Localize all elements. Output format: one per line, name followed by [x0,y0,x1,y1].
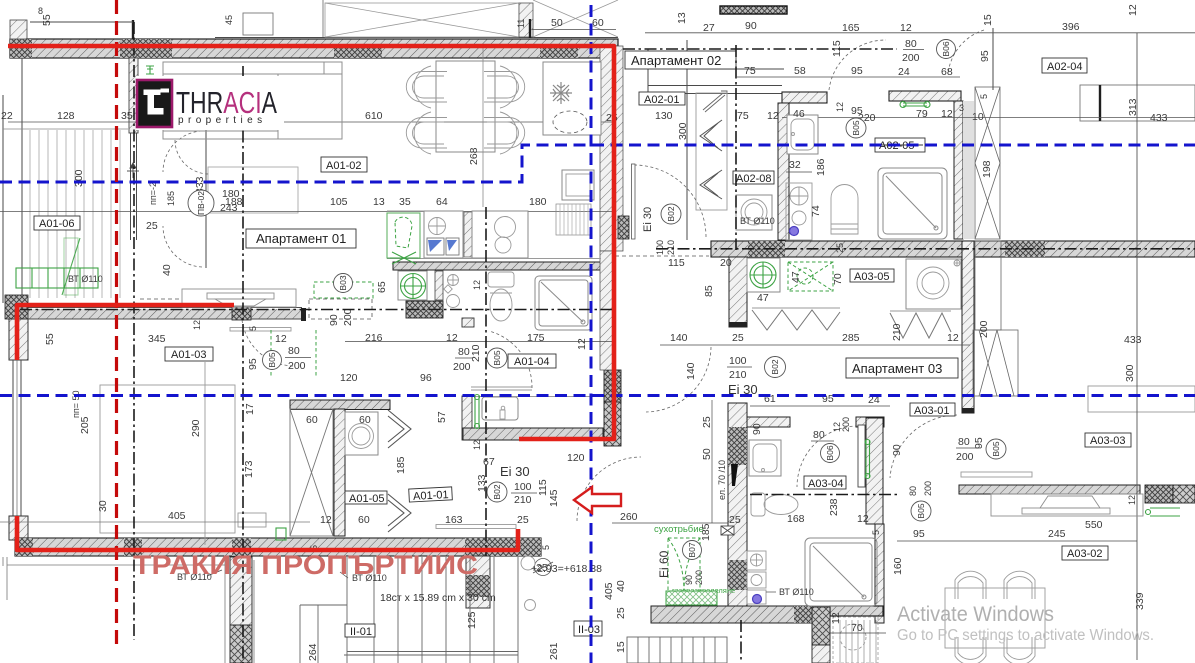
svg-text:13: 13 [676,12,688,24]
bath step wall piece [462,318,474,327]
svg-text:75: 75 [737,110,749,122]
svg-text:67: 67 [483,456,495,468]
shower A01 bath [535,276,592,330]
green stick icon near logo [146,66,154,74]
svg-text:B07: B07 [687,542,697,557]
svg-text:200: 200 [978,320,990,338]
svg-text:12: 12 [446,332,458,344]
svg-text:200: 200 [288,360,306,372]
svg-text:12: 12 [1127,495,1137,505]
logo glyph [144,89,170,115]
svg-text:105: 105 [330,196,348,208]
bedroom wall crosshatch block [1145,485,1173,503]
wall stub x133 [132,20,134,39]
radiator dim line [830,632,886,634]
washing machine A02-08 [736,195,772,230]
wall band A01 living/bedroom divider [8,307,302,309]
curtain dashed line [140,298,182,300]
center wall column crosshatch part2 [728,560,747,590]
green tall cabinet kitchen A01 [387,213,420,258]
svg-text:200: 200 [902,52,920,64]
green plant marks ap03 bedroom [1146,508,1181,516]
window shaft lower with X [973,241,1018,396]
kitchen appliance column A03 [747,551,766,604]
window shaft with X bracing upper [975,87,1000,239]
svg-text:35: 35 [399,196,411,208]
svg-text:12: 12 [830,612,842,624]
svg-text:120: 120 [340,372,358,384]
label II-03 [574,621,602,636]
svg-text:115: 115 [668,257,685,269]
kitchen A01-04 sink [482,397,518,420]
dim chain line bedroom [0,521,310,523]
axis horizontal y249 divider band [656,248,1195,250]
kitchen door arc [489,331,532,388]
green dashed appliance A03-05 [788,262,833,291]
svg-text:68: 68 [941,66,953,78]
vanity sink A02-08 [787,115,818,154]
svg-text:ВТ Ø110: ВТ Ø110 [68,274,103,284]
label A02-05 strikethrough [875,138,925,152]
svg-text:B05: B05 [991,441,1001,456]
label A01-03 [165,347,213,361]
divider band crosshatch left [748,241,785,257]
svg-text:27: 27 [703,22,715,34]
svg-text:95: 95 [913,528,925,540]
svg-text:40: 40 [161,264,173,276]
shelf ap03 bedroom [961,472,1032,477]
left wall pier lower [9,516,28,540]
right long boundary line [1136,33,1138,660]
kitchen divider band A01 [393,262,601,270]
svg-text:сухотрьбие: сухотрьбие [654,524,704,535]
svg-text:90: 90 [328,314,340,326]
svg-text:80: 80 [958,436,970,448]
svg-text:A01-04: A01-04 [514,356,549,368]
svg-text:25: 25 [146,220,158,232]
bottom band offset right [830,606,883,616]
svg-text:B03: B03 [338,275,348,290]
towel radiator zigzag 1 [752,310,840,330]
svg-text:80: 80 [905,38,917,50]
svg-text:245: 245 [1048,528,1066,540]
svg-text:11: 11 [516,19,526,28]
svg-text:46: 46 [793,108,805,120]
fridge cabinet [543,62,601,135]
duct box X [721,526,734,535]
ap02 corridor top wall [648,85,782,87]
B02 circle ap02 [661,204,681,224]
svg-text:185: 185 [700,523,712,541]
red boundary bottom [17,516,518,550]
bedroom door arc [242,320,295,366]
cooktop block [472,211,528,258]
axis horizontal y310 A01 [20,309,612,311]
circle B03 [334,274,353,293]
svg-text:A02-04: A02-04 [1047,61,1082,73]
svg-text:20: 20 [720,257,732,269]
top strip dim line [532,29,616,31]
circle B05 ap02 [846,118,866,138]
axis vertical x736 [735,45,737,250]
svg-text:90: 90 [684,575,694,585]
svg-text:210: 210 [666,240,676,255]
washer square A03-05 [906,259,961,309]
svg-text:300: 300 [677,122,689,140]
axis vertical x741 bottom [740,620,742,663]
svg-text:B06: B06 [825,445,835,460]
wardrobe chevron lower [700,170,722,199]
balcony door jamb [205,130,207,268]
svg-text:ПВ-02: ПВ-02 [196,191,206,215]
ap02 entry door leaf [703,91,727,112]
upper room small rect [243,13,273,35]
svg-text:Апартамент 01: Апартамент 01 [256,231,346,246]
svg-text:25: 25 [615,607,627,619]
svg-text:95: 95 [247,358,259,370]
svg-text:180: 180 [222,188,240,200]
svg-text:140: 140 [685,362,697,380]
svg-text:5: 5 [979,94,989,99]
svg-text:A03-04: A03-04 [808,478,843,490]
svg-text:57: 57 [436,411,448,423]
freezer box [562,170,594,200]
green slide bar ap02 bath door [900,102,930,108]
svg-text:100: 100 [729,355,747,367]
mid right beam rect [1088,386,1195,412]
blue dashed line 2 [0,394,1195,397]
B05 circle kitchen [487,348,507,368]
long wall band ap02/ap03 divider [711,241,1195,257]
green washer circles A01 bath [401,274,426,299]
svg-text:B05: B05 [492,350,502,365]
ap03 bedroom door arc [890,415,957,478]
green gas meter crosshatch box [666,591,717,605]
svg-text:5: 5 [871,530,881,535]
wall line above top band [30,21,133,23]
svg-text:64: 64 [436,196,448,208]
fan mark dashed circle [840,624,866,650]
axis horizontal y49 ap02 [623,48,897,50]
circle B05 bedroom [263,351,282,370]
svg-text:74: 74 [810,205,822,217]
threshold line y523 [612,522,728,524]
ap02 entry door arc [634,165,706,237]
bottom band crosshatch balcony [124,538,142,556]
svg-text:75: 75 [744,65,756,77]
logo THRACIA box [137,80,172,127]
B02 circle corridor [487,482,507,502]
svg-text:properties: properties [178,115,266,126]
B06 circle ap03 bath [821,444,840,463]
svg-text:186: 186 [815,158,827,176]
long horizontal line y118 [782,117,1195,119]
svg-text:95: 95 [973,437,985,449]
green sink A03-05 [747,258,780,292]
left wall pier upper [9,319,28,360]
label A01-05 [345,491,387,504]
svg-text:96: 96 [420,372,432,384]
closet top wall band [290,400,390,410]
threshold shelf [436,525,516,529]
crosshatch block ap02 left [618,216,629,239]
svg-text:10: 10 [972,111,984,123]
svg-text:80: 80 [908,486,918,496]
bath door arc A03-04 [858,425,865,487]
top-center dark wall band [720,6,787,14]
north arrow mark [127,163,139,178]
svg-text:A01-02: A01-02 [326,160,361,172]
closet side wall column [334,409,345,536]
bottom band crosshatch mid [232,538,251,556]
A03-04 top wall band right [856,417,884,427]
stair column circle [521,556,535,570]
top strip wall stub x530 [529,19,531,38]
svg-text:80: 80 [813,429,825,441]
svg-text:120: 120 [567,452,585,464]
parapet line bottom-left [3,557,225,600]
chair bottom-right [484,112,525,154]
closet bifold chevrons lower [388,494,411,532]
bed/sideboard ap03 [991,494,1143,516]
svg-text:47: 47 [757,292,769,304]
svg-text:22: 22 [1,110,13,122]
svg-text:12: 12 [320,514,332,526]
B07 circle [683,541,702,560]
svg-text:B02: B02 [770,359,780,374]
closet bifold chevrons upper [388,410,411,448]
svg-text:95: 95 [851,65,863,77]
blue dashed line 1 left [0,145,1195,182]
wall pier top-left [10,20,27,39]
svg-text:70: 70 [851,622,863,634]
svg-text:Ei 30: Ei 30 [500,464,530,479]
wardrobe ap02 [696,93,727,210]
svg-text:25: 25 [729,514,741,526]
dashed oval in fridge cabinet [553,111,587,133]
svg-text:125: 125 [466,611,478,629]
wall column left of logo [129,58,138,133]
svg-text:79: 79 [916,108,928,120]
ap03 lower stairs [627,637,727,663]
upper room divider line [215,37,618,39]
kitchen shelf lines [471,386,532,388]
svg-text:17: 17 [244,403,256,415]
svg-text:85: 85 [703,285,715,297]
balcony outer edge line [2,95,4,303]
svg-text:40: 40 [615,580,627,592]
kitchen counter A01 [424,211,463,258]
chair bottom-left [406,112,447,154]
green small box [276,528,286,540]
svg-text:13: 13 [373,196,385,208]
svg-text:200: 200 [923,481,933,496]
dim chain x712 [711,400,713,523]
left wall crosshatch block [5,295,28,319]
bottom band crosshatch left [15,538,33,556]
svg-text:90: 90 [891,444,903,456]
svg-text:A01-06: A01-06 [39,218,74,230]
dim line y341 [345,341,612,343]
svg-text:A01-05: A01-05 [349,493,384,505]
svg-text:65: 65 [376,281,388,293]
kitchen bottom wall band [463,428,603,440]
balcony door arc lower [163,226,202,267]
svg-text:B06: B06 [941,41,951,56]
long horizontal line y33 [645,32,1195,34]
green door bar kitchen A01-04 [475,395,480,429]
label A02-01 [639,92,685,105]
label A03-05 [850,269,894,282]
svg-text:285: 285 [842,332,860,344]
svg-text:210: 210 [729,369,747,381]
corridor line x687 [686,40,688,240]
green dashed box B03 [314,282,373,298]
svg-text:II-03: II-03 [578,624,600,636]
top right room rect [1080,85,1195,121]
svg-text:12: 12 [275,333,287,345]
wall top band A01 [10,39,618,58]
axis vertical x243 [242,66,244,663]
ap02 bath right wall column [954,101,963,239]
bath sink fixture [444,275,460,308]
label A03-04 [804,476,846,489]
balcony deck top edge [3,128,128,130]
svg-text:ВТ Ø110: ВТ Ø110 [779,587,814,597]
vanity A03-04 [749,440,781,476]
svg-text:12: 12 [767,110,779,122]
svg-text:58: 58 [794,65,806,77]
svg-text:90: 90 [745,20,757,32]
svg-text:185: 185 [166,191,176,206]
svg-text:A03-01: A03-01 [914,405,949,417]
door arc A02-04 [948,30,984,74]
svg-text:32: 32 [789,159,801,171]
boiler A02 [831,185,858,235]
balcony door arc upper [163,131,202,172]
kitchen sink circle [429,218,446,235]
ap03 bedroom wall band [959,485,1140,494]
shower A02-05 [878,168,947,239]
svg-text:A01-03: A01-03 [171,349,206,361]
svg-text:200: 200 [342,308,354,326]
apartment boundary wall column crosshatch lower [604,402,621,446]
svg-text:Ei 30: Ei 30 [642,207,654,232]
svg-text:5: 5 [248,326,258,331]
svg-text:260: 260 [620,511,638,523]
svg-text:210: 210 [514,494,532,506]
svg-text:200: 200 [694,570,704,585]
corner mark [954,260,960,266]
svg-text:60: 60 [306,414,318,426]
long dim line y207 [0,211,612,213]
svg-text:261: 261 [548,642,560,660]
svg-text:345: 345 [148,333,166,345]
chair ap03 top-left [955,571,986,599]
drying rack stripes [556,204,591,235]
divider wall end cap [301,308,306,321]
door arc A01-02 entry [175,140,209,174]
shower A03-02 [805,538,877,606]
svg-text:A03-03: A03-03 [1090,435,1125,447]
A03-04 right wall column [866,418,883,524]
divider wall crosshatch block [232,295,251,320]
green cross mark [390,252,418,264]
svg-text:128: 128 [57,110,75,122]
ap02 bath top wall band right [889,91,961,101]
ap03 entry door arc [646,347,711,412]
label A01-01 [409,487,453,502]
green door leaf A01-06 [62,238,80,295]
balcony door glazing [130,133,132,240]
svg-text:300: 300 [73,169,85,187]
svg-text:12: 12 [857,513,869,525]
svg-text:A01-01: A01-01 [413,489,449,503]
svg-text:243: 243 [220,202,238,214]
ap03 bath left wall cap [729,322,747,327]
kitchen counter top line [472,396,604,398]
svg-text:185: 185 [395,456,407,474]
svg-text:95: 95 [979,50,991,62]
svg-text:Activate Windows: Activate Windows [897,603,1054,626]
svg-text:268: 268 [468,147,480,165]
svg-text:210: 210 [470,344,482,362]
svg-text:339: 339 [1134,592,1146,610]
svg-text:173: 173 [243,460,255,478]
TV cabinet bedroom wall [182,289,296,307]
svg-text:290: 290 [190,419,202,437]
svg-text:12: 12 [472,280,482,290]
stairs bottom-center [300,557,518,663]
B02 circle ap03 [765,357,786,378]
kitchen divider hatch [464,212,472,257]
B05 circle ap03 [986,439,1006,459]
svg-text:405: 405 [603,582,615,600]
apartment boundary wall column crosshatch [604,370,621,402]
svg-text:12: 12 [900,22,912,34]
svg-text:ТРАКИЯ ПРОПЪРТИИС: ТРАКИЯ ПРОПЪРТИИС [133,550,478,580]
bottom band crosshatch [794,606,830,623]
svg-text:550: 550 [1085,519,1103,531]
svg-text:Ei 60: Ei 60 [657,550,671,578]
label A03-02 [1062,546,1108,560]
svg-text:ВТ Ø110: ВТ Ø110 [740,216,775,226]
svg-text:80: 80 [288,345,300,357]
dining table A03-02 [945,588,1045,648]
wall top band crosshatch at balcony door [120,39,172,58]
svg-text:300: 300 [1124,364,1136,382]
svg-text:90: 90 [751,423,763,435]
svg-text:18ст x 15.89 cm x 30 cm: 18ст x 15.89 cm x 30 cm [380,592,496,604]
svg-text:140: 140 [670,332,688,344]
washer A01-05 box [345,412,378,455]
svg-text:55: 55 [44,333,56,345]
svg-text:II-01: II-01 [350,626,372,638]
ap03 bath left wall column [729,257,747,327]
svg-text:35: 35 [121,110,133,122]
bottom band crosshatch right [465,538,541,556]
left window glazing [12,360,14,516]
ap03 right wall cap [962,408,974,413]
svg-text:70: 70 [832,273,844,285]
axis vertical x134 [133,22,135,640]
wardrobe chevron upper [700,120,722,151]
blue dashed vertical [590,5,593,663]
svg-text:433: 433 [1150,112,1168,124]
green door bar A03-04 [865,440,870,479]
door post wedge [731,464,738,486]
svg-text:A02-01: A02-01 [644,94,679,106]
